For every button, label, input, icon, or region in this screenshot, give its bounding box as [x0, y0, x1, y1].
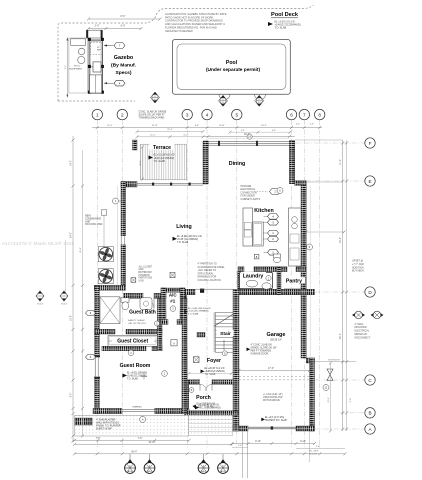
svg-text:MOTOR ABOVE: MOTOR ABOVE: [263, 399, 280, 402]
svg-text:A/C: A/C: [169, 293, 178, 298]
garage door: [248, 426, 296, 428]
right dim lines: [342, 140, 344, 431]
svg-text:Dining: Dining: [229, 161, 245, 167]
svg-text:A3.0: A3.0: [201, 470, 206, 473]
kitchen callout hexes: [264, 215, 268, 217]
svg-text:EGRESS: EGRESS: [132, 406, 142, 408]
svg-text:GRADE. SLOPE ON 1/8": GRADE. SLOPE ON 1/8": [251, 346, 277, 349]
svg-text:A: A: [142, 418, 144, 422]
Guest Closet: [108, 335, 157, 346]
tag 14 above dining wall: [247, 134, 252, 139]
svg-text:EQUIPMENT: EQUIPMENT: [69, 69, 83, 71]
svg-text:14'-0": 14'-0": [71, 160, 73, 166]
svg-text:+/- LINK (4'&1'-10"): +/- LINK (4'&1'-10"): [263, 394, 283, 396]
svg-text:#1: #1: [170, 299, 176, 304]
hall east wall: [182, 298, 187, 414]
svg-text:5'-4": 5'-4": [350, 398, 352, 403]
svg-text:305.56 S.F.: 305.56 S.F.: [270, 339, 282, 342]
svg-text:EL +20.45' N.G.V.D: EL +20.45' N.G.V.D: [205, 368, 225, 370]
svg-text:Gazebo: Gazebo: [114, 55, 134, 61]
closet south wall: [102, 346, 146, 351]
svg-text:Guest Bath: Guest Bath: [129, 309, 156, 315]
bath sink: [140, 298, 152, 310]
stair wall stub: [197, 333, 205, 338]
svg-text:9'-10": 9'-10": [219, 125, 225, 127]
svg-text:8'-6": 8'-6": [121, 15, 126, 18]
porch south wall: [184, 411, 238, 416]
svg-text:Laundry: Laundry: [243, 273, 264, 279]
svg-text:SAFETY GLASS*: SAFETY GLASS*: [128, 319, 145, 322]
svg-text:T.O. SLAB: T.O. SLAB: [177, 241, 189, 244]
window tag on west wall: [113, 198, 119, 204]
svg-text:E: E: [368, 179, 371, 184]
svg-text:32'-6": 32'-6": [340, 237, 342, 243]
svg-text:2: 2: [121, 112, 124, 117]
svg-text:22'-4": 22'-4": [167, 129, 173, 131]
left dim lines: [72, 136, 74, 441]
svg-text:OPEN DOOR AND: OPEN DOOR AND: [263, 396, 283, 399]
svg-text:BUT ABOV: BUT ABOV: [352, 270, 364, 273]
svg-text:6: 6: [290, 112, 293, 117]
svg-text:+5.0' T.O. SLAB: +5.0' T.O. SLAB: [197, 405, 214, 408]
svg-text:Porch: Porch: [196, 395, 211, 401]
laundry south / garage north wall: [185, 289, 195, 295]
exterior extension lines: [117, 186, 119, 285]
svg-text:5'-4": 5'-4": [238, 445, 242, 447]
svg-text:5.0: 5.0: [222, 102, 225, 104]
svg-text:7: 7: [303, 112, 306, 117]
svg-text:BATHROOM: BATHROOM: [139, 271, 152, 274]
svg-text:21'-4": 21'-4": [80, 247, 82, 253]
terrace interior dim: [142, 147, 144, 179]
svg-text:6'-8": 6'-8": [272, 130, 276, 132]
terrace walls: [133, 140, 138, 150]
svg-text:Pool Deck: Pool Deck: [271, 12, 299, 18]
svg-text:6'-6": 6'-6": [195, 125, 200, 127]
svg-text:T.O. SLAB: T.O. SLAB: [188, 312, 199, 315]
west jog wall: [94, 285, 125, 290]
svg-text:22'-8": 22'-8": [328, 397, 330, 403]
svg-text:A3.0: A3.0: [128, 470, 133, 473]
svg-text:Terrace: Terrace: [153, 145, 171, 151]
svg-text:11'-2": 11'-2": [150, 134, 155, 136]
svg-text:6: 6: [259, 99, 260, 101]
Guest Bath: [128, 308, 157, 314]
porch door arcs: [200, 384, 206, 390]
svg-text:Stair: Stair: [220, 331, 231, 337]
window tag east kitchen: [307, 244, 313, 250]
pool outline: [172, 40, 290, 95]
callout hex 4: [104, 82, 114, 84]
terrace decking: [140, 144, 186, 180]
svg-text:18'-2": 18'-2": [261, 125, 267, 127]
svg-text:11'-2": 11'-2": [340, 159, 342, 165]
west wall window: [94, 356, 100, 379]
svg-text:17'-0": 17'-0": [268, 367, 274, 370]
svg-text:7'-8": 7'-8": [138, 438, 143, 440]
svg-text:11'-0": 11'-0": [207, 371, 212, 373]
shower: [100, 297, 120, 324]
garage right vertical dim: [330, 363, 332, 431]
bottom dim lines: [75, 439, 189, 441]
svg-text:+5.45 (GC 29/NAV): +5.45 (GC 29/NAV): [127, 374, 147, 377]
svg-text:11'-2": 11'-2": [183, 134, 188, 136]
guest west wall: [95, 285, 100, 413]
svg-text:4: 4: [206, 112, 209, 117]
svg-text:9'-10": 9'-10": [300, 441, 306, 443]
svg-text:T.O. SLAB: T.O. SLAB: [275, 27, 287, 30]
svg-text:Kitchen: Kitchen: [254, 208, 273, 214]
bottom vert lines: [241, 431, 243, 478]
Laundry: [240, 272, 273, 288]
gazebo posts: [88, 38, 91, 41]
svg-text:UON: UON: [139, 281, 144, 283]
toilet: [121, 298, 129, 302]
laundry west wall: [238, 272, 242, 290]
svg-text:WORKSHOP: WORKSHOP: [328, 359, 341, 361]
pool deck boundary (dashed): [58, 5, 314, 101]
svg-text:2'-0": 2'-0": [95, 25, 100, 28]
svg-text:SC 1/4: SC 1/4: [61, 304, 67, 306]
svg-text:COLUMN LOCATION.: COLUMN LOCATION.: [198, 279, 222, 282]
svg-text:ALL CLOSET: ALL CLOSET: [139, 265, 153, 268]
east jog: [295, 181, 307, 186]
svg-text:Pool: Pool: [226, 60, 238, 66]
svg-text:6: 6: [154, 96, 155, 98]
laundry north wall: [238, 267, 244, 272]
svg-text:2'-6": 2'-6": [296, 124, 300, 126]
dim line under bubbles: [92, 127, 322, 129]
svg-text:+5.45 (GC 29/NAVD): +5.45 (GC 29/NAVD): [188, 310, 209, 313]
svg-text:T.O. SLAB: T.O. SLAB: [127, 378, 138, 381]
svg-text:8'-2": 8'-2": [71, 393, 73, 398]
equipment dim line: [66, 38, 68, 98]
svg-text:3: 3: [186, 112, 189, 117]
Stair: [215, 311, 233, 313]
callout hex 7: [104, 45, 114, 47]
garage west wall: [233, 289, 239, 431]
svg-text:24'-2": 24'-2": [71, 232, 73, 238]
foyer porch divider: [189, 380, 200, 385]
svg-text:5.0: 5.0: [258, 102, 261, 104]
svg-text:BURET/ W WP: BURET/ W WP: [96, 429, 112, 431]
planter wall hatch: [75, 418, 92, 425]
svg-text:11'-8": 11'-8": [140, 160, 142, 165]
svg-text:F: F: [369, 141, 372, 146]
svg-text:FINISH. T.O. PLANTER: FINISH. T.O. PLANTER: [96, 425, 121, 428]
svg-text:Foyer: Foyer: [207, 358, 221, 364]
svg-text:CABINET LIGHTS: CABINET LIGHTS: [241, 198, 261, 201]
svg-text:B: B: [368, 411, 371, 416]
svg-text:Pantry: Pantry: [286, 279, 302, 285]
svg-text:N.G.V.D: N.G.V.D: [310, 453, 318, 455]
garage east wall: [310, 358, 315, 431]
svg-text:SC 1/4: SC 1/4: [37, 304, 43, 306]
dining north windows: [208, 141, 289, 143]
svg-text:26'-0": 26'-0": [340, 333, 342, 339]
top ext dim lines: [295, 139, 343, 141]
pool steps arcs: [219, 94, 230, 100]
svg-text:EL +5 (EL (29/NAV): EL +5 (EL (29/NAV): [127, 371, 147, 374]
svg-text:2'-6": 2'-6": [310, 124, 314, 126]
gazebo dims: [89, 18, 161, 20]
AC label: [166, 293, 180, 311]
svg-text:5.0: 5.0: [154, 99, 157, 101]
svg-text:4" CONC. SLAB ON: 4" CONC. SLAB ON: [251, 343, 272, 346]
meter pins: [352, 313, 356, 318]
svg-text:9'-10": 9'-10": [255, 441, 261, 443]
terrace label: [150, 144, 175, 150]
svg-text:WALL WITH STUCCO: WALL WITH STUCCO: [96, 422, 119, 425]
bath closet divider: [95, 329, 115, 334]
AC room walls: [161, 288, 185, 293]
deck bottom edge: [58, 100, 135, 102]
svg-text:A3.0: A3.0: [221, 470, 226, 473]
svg-text:HIGHEST P.O. SLAB: HIGHEST P.O. SLAB: [265, 419, 287, 422]
east wall upper: [289, 141, 294, 184]
bar sink above laundry: [274, 254, 281, 258]
svg-text:Guest Closet: Guest Closet: [117, 339, 148, 345]
svg-text:10'-2": 10'-2": [107, 125, 113, 127]
svg-text:PARTITIONS: PARTITIONS: [139, 277, 153, 280]
bath east wall: [157, 298, 162, 329]
svg-text:4" CMU/PLASTER: 4" CMU/PLASTER: [96, 419, 115, 422]
bath door arc: [144, 298, 155, 309]
gazebo top pad: [86, 30, 102, 38]
foyer door tag: [193, 357, 199, 363]
svg-text:ON CONC. PAD: ON CONC. PAD: [85, 223, 103, 226]
svg-text:5'-2": 5'-2": [65, 65, 67, 69]
svg-text:POOL: POOL: [74, 65, 81, 67]
svg-text:(Under separate permit): (Under separate permit): [206, 67, 261, 73]
svg-text:DISCONNECT: DISCONNECT: [355, 336, 371, 339]
dim above terrace: [137, 131, 203, 133]
svg-text:6: 6: [222, 99, 223, 101]
left callouts: [86, 311, 96, 316]
porch side planter: [176, 415, 189, 433]
closet door tags: [109, 340, 115, 346]
svg-text:26'-11": 26'-11": [149, 442, 156, 444]
svg-text:Specs): Specs): [115, 70, 131, 76]
svg-text:EL +19.8': EL +19.8': [310, 450, 319, 452]
svg-text:1: 1: [96, 112, 99, 117]
svg-text:7'-8": 7'-8": [96, 438, 101, 440]
kitchen counters: [243, 208, 253, 246]
foyer interior dim: [189, 372, 232, 374]
east wall mid: [301, 185, 306, 358]
svg-text:INTERIOR: INTERIOR: [139, 275, 150, 277]
svg-text:TOWARDS BACKYARD: TOWARDS BACKYARD: [139, 117, 165, 120]
svg-text:A3.0: A3.0: [147, 470, 152, 473]
condenser fans: [98, 247, 113, 262]
svg-text:Guest Room: Guest Room: [120, 363, 151, 369]
closet east wall: [157, 329, 162, 351]
porch west wall: [184, 380, 189, 416]
svg-text:6'-0": 6'-0": [121, 25, 126, 28]
svg-text:EL +5 (EL (29) N.G.V.D: EL +5 (EL (29) N.G.V.D: [188, 308, 211, 310]
guest room east wall: [182, 351, 187, 414]
svg-text:2'-6": 2'-6": [316, 446, 321, 448]
svg-text:8: 8: [318, 112, 321, 117]
gazebo bench: [90, 75, 102, 93]
west wall: [121, 182, 126, 286]
svg-text:65'-4": 65'-4": [131, 451, 137, 453]
svg-text:12'-6": 12'-6": [71, 315, 73, 321]
Pantry: [277, 267, 281, 295]
sliding door to terrace: [137, 182, 203, 184]
grid bubbles A-F: [295, 142, 365, 144]
gazebo frame: [89, 40, 102, 93]
gazebo roof dashed: [90, 42, 102, 54]
guest room south wall: [93, 408, 122, 413]
garage south wall: [232, 426, 249, 431]
svg-text:21'-8": 21'-8": [152, 125, 158, 127]
svg-text:AND: AND: [139, 268, 144, 271]
planter bed: [75, 415, 189, 436]
svg-text:PER FT TOWARDS: PER FT TOWARDS: [251, 349, 272, 352]
grid bubbles 1-8: [96, 120, 98, 448]
pool equipment enclosure: [69, 38, 88, 93]
svg-text:5: 5: [236, 112, 239, 117]
svg-text:EL +4.5' (2'-0" 2%): EL +4.5' (2'-0" 2%): [265, 417, 284, 419]
window tag on east wall: [277, 188, 283, 194]
svg-text:A11744378 © Miami MLS® 2025: A11744378 © Miami MLS® 2025: [2, 240, 75, 246]
svg-text:CAT. II/TYPE 5/16": CAT. II/TYPE 5/16": [128, 322, 147, 325]
svg-text:EL +19.8' N.G.V.D: EL +19.8' N.G.V.D: [197, 403, 216, 405]
svg-text:(By Manuf.: (By Manuf.: [111, 63, 137, 69]
svg-text:GARAGE DOOR.: GARAGE DOOR.: [251, 352, 270, 355]
svg-text:T.O. SLAB: T.O. SLAB: [154, 160, 166, 163]
living north wall: [121, 182, 137, 188]
svg-text:ARCHITECTS REVIEW.: ARCHITECTS REVIEW.: [165, 29, 193, 33]
svg-text:6'-8": 6'-8": [241, 130, 245, 132]
section marker diamonds: [151, 92, 160, 103]
guest bath north wall: [124, 293, 144, 298]
garage east jog: [306, 358, 314, 363]
gazebo table: [93, 62, 101, 72]
left section diamonds: [36, 291, 44, 301]
svg-text:Living: Living: [176, 224, 192, 230]
porch steps: [189, 415, 233, 436]
svg-text:Garage: Garage: [267, 332, 286, 338]
bottom section pins: [129, 454, 131, 459]
